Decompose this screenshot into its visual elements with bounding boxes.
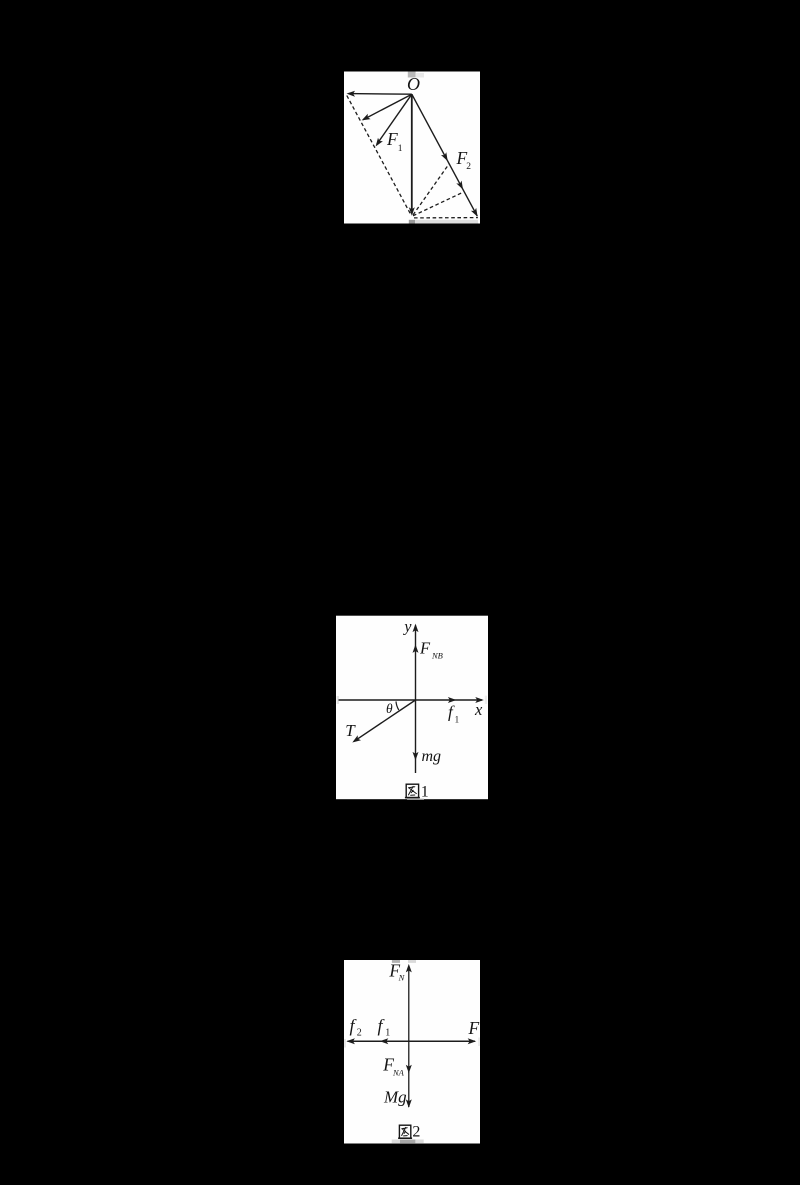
- svg-text:O: O: [407, 74, 420, 94]
- dashed line: left side of parallelogram from left arrow tip to B: [347, 96, 412, 216]
- svg-text:mg: mg: [422, 748, 442, 765]
- svg-text:1: 1: [421, 783, 429, 800]
- axis x horizontal line: [339, 697, 484, 703]
- dashed line: from B up-right to second F2 arrowhead: [413, 193, 463, 216]
- label F1: [386, 129, 403, 154]
- svg-text:F: F: [386, 129, 398, 149]
- gray strip artifact under caption 1: [407, 798, 424, 799]
- panel 3 white background: [344, 960, 480, 1144]
- svg-text:y: y: [402, 619, 412, 636]
- angle theta arc: [396, 701, 399, 710]
- label f2: [350, 1016, 362, 1039]
- svg-text:Mg: Mg: [383, 1088, 407, 1107]
- vector: horizontal arrow left from O: [347, 91, 412, 97]
- label F_N: [388, 960, 405, 982]
- axis y vertical line: [413, 624, 419, 773]
- faint smudge artifact inside right edge at x-axis: [485, 696, 487, 704]
- dashed line: from B up-right to first F2 arrowhead: [413, 164, 449, 215]
- panel 1 white background: [344, 72, 480, 224]
- jpeg artifact marks top of panel 1: [408, 72, 424, 78]
- svg-text:NB: NB: [431, 650, 443, 660]
- faint smudge artifact inside right edge panel 3: [478, 1038, 480, 1047]
- vector f1 arrowhead on x axis: [448, 697, 457, 703]
- jpeg artifact marks bottom of panel 1: [409, 220, 478, 224]
- vector F1 arrow from O: [376, 94, 412, 146]
- vector f1 arrowhead intermediate left: [380, 1038, 389, 1044]
- vector F arrowhead right end: [468, 1038, 477, 1044]
- label F2: [456, 148, 472, 172]
- svg-text:1: 1: [398, 144, 403, 154]
- svg-text:T: T: [345, 721, 356, 740]
- panel 2 white background: [336, 616, 488, 800]
- jpeg artifact marks top of panel 3: [392, 960, 416, 963]
- svg-text:F: F: [468, 1018, 480, 1038]
- svg-text:NA: NA: [392, 1067, 405, 1077]
- vector F_NA arrowhead down: [406, 1065, 412, 1074]
- svg-text:1: 1: [385, 1027, 390, 1038]
- faint smudge artifact inside left edge panel 3: [344, 1039, 346, 1048]
- vector Mg arrowhead down at end: [406, 1099, 412, 1108]
- vector F2 line from O with three arrowheads: [412, 94, 478, 217]
- svg-text:F: F: [419, 638, 431, 657]
- svg-text:2: 2: [466, 162, 471, 172]
- label f1 on x axis: [448, 703, 459, 725]
- svg-text:2: 2: [412, 1124, 420, 1141]
- label F_NB: [419, 638, 443, 660]
- vector T arrow from origin down-left: [352, 700, 415, 743]
- svg-text:1: 1: [455, 714, 460, 724]
- caption: figure-glyph box 2: [398, 1124, 420, 1141]
- vector f2 arrowhead left end: [346, 1038, 355, 1044]
- vector F_N arrowhead up: [406, 964, 412, 973]
- vector: vertical arrow from O down to B: [409, 94, 415, 216]
- label f1: [378, 1016, 391, 1039]
- svg-text:θ: θ: [386, 701, 393, 716]
- vector F_NB arrowhead on y axis: [413, 644, 419, 653]
- dashed horizontal line along bottom from B to F2 tip: [414, 217, 478, 219]
- svg-text:2: 2: [357, 1027, 362, 1038]
- vertical force line panel 3: [408, 966, 410, 1107]
- faint smudge artifact inside left edge at x-axis: [337, 696, 339, 704]
- caption: figure-glyph box 1: [405, 783, 429, 800]
- vector mg arrowhead down on y axis: [413, 752, 419, 761]
- label F_NA: [382, 1054, 404, 1077]
- vector: upper-left diagonal arrow from O: [362, 94, 412, 120]
- horizontal force line panel 3: [348, 1040, 476, 1042]
- jpeg artifact strip bottom of panel 3: [392, 1140, 424, 1144]
- svg-text:x: x: [474, 700, 483, 719]
